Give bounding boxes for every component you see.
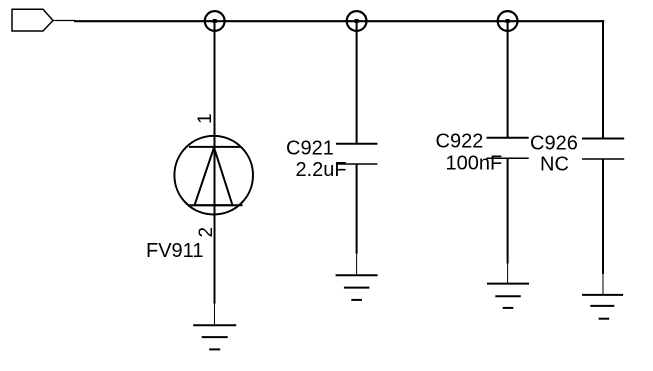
ground C921	[336, 275, 378, 300]
wire: top horizontal net	[74, 20, 604, 22]
wire: C921 lower vertical	[356, 164, 358, 254]
wire: FV911 column vertical	[214, 21, 216, 304]
FV911 top bar	[189, 146, 241, 148]
svg-text:C921: C921	[286, 138, 334, 160]
input flag connector	[12, 9, 53, 31]
capacitor C926	[582, 138, 624, 140]
capacitor C922	[487, 137, 529, 139]
svg-text:NC: NC	[540, 154, 569, 176]
wire: C926 lower vertical	[602, 159, 604, 274]
capacitor C921	[336, 143, 378, 145]
node junction at FV911 column	[205, 11, 225, 31]
svg-text:1: 1	[195, 113, 216, 124]
node junction at C921 column	[347, 11, 367, 31]
ground C926	[582, 295, 623, 319]
svg-text:100nF: 100nF	[446, 152, 503, 174]
transistor FV911 body circle	[174, 136, 253, 215]
ground FV911	[193, 325, 236, 349]
wire: flag lead	[53, 20, 76, 22]
wire: right vertical drop to C926	[602, 20, 604, 139]
ground lead FV911	[214, 304, 216, 326]
ground C922	[487, 284, 529, 308]
node junction at C922 column	[498, 11, 518, 31]
FV911 triangle	[195, 148, 233, 206]
svg-text:C922: C922	[436, 131, 484, 153]
wire: C922 upper vertical	[507, 21, 509, 138]
ground lead C922	[507, 264, 509, 284]
FV911 bottom bar	[188, 204, 243, 206]
svg-text:C926: C926	[530, 132, 578, 154]
ground lead C921	[356, 254, 358, 275]
svg-text:2.2uF: 2.2uF	[296, 159, 347, 181]
ground lead C926	[602, 274, 604, 295]
wire: C921 upper vertical	[356, 21, 358, 144]
wire: C922 lower vertical	[507, 158, 509, 263]
svg-text:FV911: FV911	[146, 240, 203, 262]
svg-text:2: 2	[196, 227, 217, 238]
